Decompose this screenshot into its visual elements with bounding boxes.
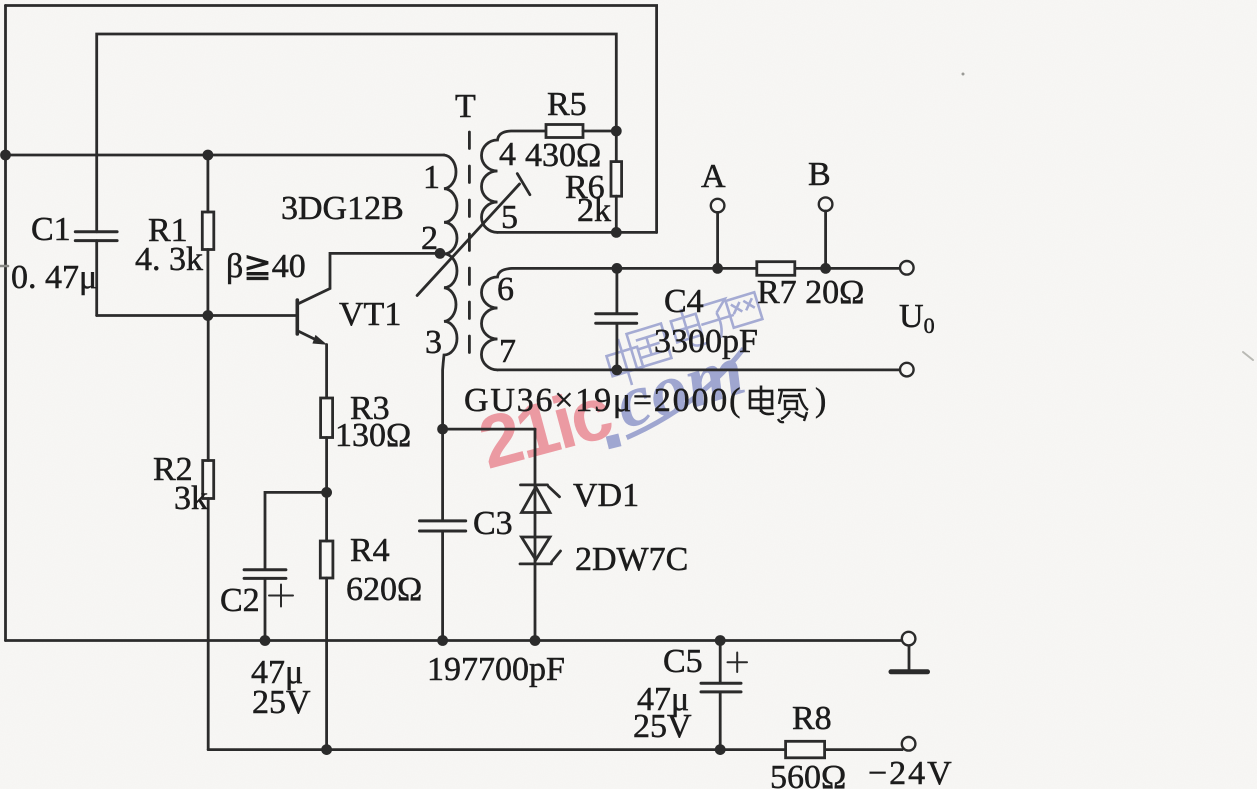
wire R2 top xyxy=(207,316,210,461)
svg-text:B: B xyxy=(808,156,831,193)
resistor R6 xyxy=(611,162,622,197)
svg-text:C5: C5 xyxy=(663,643,703,680)
国 xyxy=(627,324,672,369)
node VD1 on bottom rail xyxy=(530,635,541,646)
wire base rail y=315.5 xyxy=(97,314,297,317)
zener VD1 lower cathode bar xyxy=(520,563,552,566)
C2 plus sign xyxy=(269,585,293,607)
svg-text:1: 1 xyxy=(423,159,440,196)
wire VD1 branch horizontal xyxy=(443,428,535,431)
capacitor C4 xyxy=(616,268,619,312)
resistor R7 xyxy=(757,262,795,276)
svg-text:C1: C1 xyxy=(31,211,71,248)
transformer T primary winding 1-2-3 xyxy=(443,155,457,429)
transistor VT1 collector lead xyxy=(298,253,440,303)
node R5/R6 junction xyxy=(611,126,622,137)
transformer T secondary winding 6-7 xyxy=(481,268,616,370)
svg-text:GU36×19μ=2000(: GU36×19μ=2000( xyxy=(464,382,742,419)
capacitor C2 plates xyxy=(244,570,286,579)
svg-text:25V: 25V xyxy=(252,684,311,721)
wire C3 top xyxy=(441,429,444,519)
wire output bottom line y=369.9 xyxy=(498,368,901,371)
svg-text:R5: R5 xyxy=(547,86,587,123)
zener VD1 upper cathode bar xyxy=(521,483,548,486)
node R1/R2 base junction xyxy=(203,310,214,321)
zener VD1 upper triangle xyxy=(522,487,551,513)
watermark blue dot xyxy=(606,433,622,449)
speck right edge xyxy=(1243,352,1253,360)
svg-text:2: 2 xyxy=(421,220,438,257)
svg-text:6: 6 xyxy=(497,271,514,308)
svg-text:25V: 25V xyxy=(633,708,692,745)
wire output top line y=268.4 xyxy=(617,267,900,270)
wire VD1 vertical xyxy=(534,429,537,640)
node R4 on -24V rail xyxy=(321,744,332,755)
ground symbol xyxy=(908,646,911,670)
terminal Uo bottom circle xyxy=(900,363,914,377)
resistor R5 xyxy=(546,125,583,138)
svg-text:A: A xyxy=(701,158,726,195)
node C2 on bottom rail xyxy=(260,635,271,646)
terminal -24V circle xyxy=(902,737,916,751)
wire emitter down xyxy=(325,345,328,399)
resistor R8 xyxy=(786,741,825,758)
node primary/C3/VD1 tee xyxy=(437,424,448,435)
svg-text:C4: C4 xyxy=(664,283,704,320)
svg-text:620Ω: 620Ω xyxy=(346,571,422,608)
电 xyxy=(668,304,708,351)
svg-text:4. 3k: 4. 3k xyxy=(135,241,203,278)
speck left edge xyxy=(0,265,8,268)
transformer core dashed line xyxy=(468,132,471,366)
svg-text:VD1: VD1 xyxy=(573,477,639,514)
node left rail tee xyxy=(0,150,11,161)
wire inner feedback loop (C1 branch) xyxy=(97,34,617,316)
node C5 top xyxy=(715,635,726,646)
wire bottom common rail xyxy=(6,639,902,642)
transistor VT1 base bar xyxy=(295,300,299,334)
node R1 top junction xyxy=(203,150,214,161)
transformer tuning arrow tick xyxy=(517,174,530,195)
svg-text:R7 20Ω: R7 20Ω xyxy=(757,274,864,311)
wire R6 bottom xyxy=(615,196,618,232)
terminal Uo top circle xyxy=(900,261,914,275)
svg-text:5: 5 xyxy=(501,199,518,236)
resistor R3 xyxy=(321,398,333,438)
node emitter/C2 tee xyxy=(321,487,332,498)
watermark blue CJK 中国电子网 xyxy=(603,292,763,389)
node C4 bottom tee xyxy=(612,365,623,376)
zener VD1 upper bar tick xyxy=(549,487,560,497)
watermark red 21ic logo xyxy=(471,370,619,484)
子 xyxy=(696,298,739,342)
CJK gan (sense) xyxy=(778,390,808,422)
wire R2 bottom to -24V rail xyxy=(207,499,210,750)
capacitor C5 xyxy=(719,641,722,682)
transistor VT1 emitter arrowhead xyxy=(312,335,327,345)
C5 plus sign xyxy=(728,653,748,673)
wire R4 bottom crossing rail xyxy=(325,578,328,750)
wire C3 bottom xyxy=(441,533,444,641)
wire top supply rail y=155 xyxy=(6,154,445,157)
svg-text:2DW7C: 2DW7C xyxy=(575,541,688,578)
wire outer feedback frame top/right xyxy=(6,6,657,233)
wire R6 top xyxy=(615,131,618,162)
wire R1 top xyxy=(206,155,209,212)
terminal A circle xyxy=(711,199,725,213)
svg-text:4: 4 xyxy=(499,136,516,173)
resistor R1 xyxy=(202,212,214,250)
CJK dian (electric) xyxy=(750,386,774,415)
wire outer frame left vertical xyxy=(4,6,7,641)
svg-text:3300pF: 3300pF xyxy=(654,323,758,360)
resistor R2 xyxy=(203,461,214,499)
svg-text:7: 7 xyxy=(499,333,516,370)
transformer T secondary winding 4-5 xyxy=(482,131,547,232)
wire R1 bottom xyxy=(206,250,209,316)
svg-text:C2: C2 xyxy=(220,582,260,619)
svg-text:R8: R8 xyxy=(792,700,832,737)
transistor VT1 emitter lead xyxy=(298,331,322,343)
transformer tuning arrow shaft xyxy=(417,184,519,296)
node A tee xyxy=(712,263,723,274)
svg-text:): ) xyxy=(815,382,826,419)
svg-text:VT1: VT1 xyxy=(339,296,401,333)
svg-text:2k: 2k xyxy=(577,192,611,229)
node C5 bottom xyxy=(715,744,726,755)
node C3 on bottom rail xyxy=(437,635,448,646)
wire C2 bottom xyxy=(264,580,267,641)
node R6 bottom junction xyxy=(611,227,622,238)
zener VD1 lower bar tick xyxy=(552,551,561,562)
svg-text:197700pF: 197700pF xyxy=(427,651,565,688)
wire -24V lower rail left of R8 xyxy=(208,748,785,751)
wire C2 horizontal branch xyxy=(265,492,327,568)
网 xyxy=(726,292,763,328)
wire terminal B stem xyxy=(824,211,827,268)
svg-text:0. 47μ: 0. 47μ xyxy=(11,259,97,296)
svg-text:3DG12B: 3DG12B xyxy=(281,190,404,227)
capacitor C3 plates xyxy=(420,521,466,531)
WATERMARK xyxy=(471,292,763,484)
wire winding5 line to frame xyxy=(498,231,657,234)
wire -24V lower rail right of R8 xyxy=(825,748,903,751)
resistor R4 xyxy=(320,541,333,578)
zener VD1 lower triangle xyxy=(522,537,551,560)
svg-text:β≧40: β≧40 xyxy=(226,248,306,285)
svg-text:R4: R4 xyxy=(350,532,390,569)
node collector / tap2 junction xyxy=(435,248,446,259)
terminal B circle xyxy=(819,197,833,211)
svg-text:560Ω: 560Ω xyxy=(770,759,846,789)
svg-text:−24V: −24V xyxy=(868,755,954,789)
speck top right xyxy=(962,73,965,76)
svg-text:C3: C3 xyxy=(473,505,513,542)
svg-text:130Ω: 130Ω xyxy=(335,417,411,454)
watermark blue script com xyxy=(605,327,761,446)
node B tee xyxy=(820,263,831,274)
wire terminal A stem xyxy=(716,212,719,268)
svg-text:3: 3 xyxy=(425,324,442,361)
wire R5 to R6 junction xyxy=(583,130,616,133)
svg-text:T: T xyxy=(455,88,476,125)
wire R3 to emitter node xyxy=(325,438,328,493)
中 xyxy=(603,334,648,389)
wire R4 top xyxy=(325,492,328,541)
svg-text:3k: 3k xyxy=(174,480,208,517)
capacitor C1 plates xyxy=(75,232,117,241)
terminal ground circle xyxy=(902,632,916,646)
node C4 top tee xyxy=(612,263,623,274)
